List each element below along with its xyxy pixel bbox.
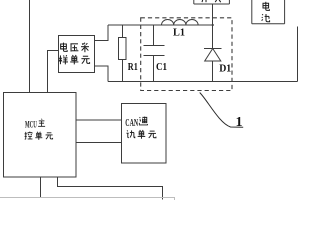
diode D1 cathode bar: [204, 48, 222, 50]
switch box (clipped at top): [194, 0, 230, 4]
wire: [122, 25, 124, 38]
wire: [122, 60, 124, 82]
leader line for reference numeral 1: [200, 93, 244, 128]
svg-text:R1: R1: [128, 61, 138, 73]
wire: [153, 56, 155, 82]
wire: [212, 4, 214, 49]
battery box (clipped at top): [252, 0, 285, 24]
diode D1 triangle: [205, 49, 221, 62]
wire: [95, 25, 109, 41]
wire: [29, 0, 31, 92]
inductor L1: [162, 20, 199, 26]
battery box text 电池 vertical: [262, 2, 270, 22]
svg-text:1: 1: [236, 115, 243, 130]
junction top rail / D1 vertical: [212, 24, 214, 26]
MCU main control unit text MCU主控单元: [25, 119, 53, 140]
faint cropped unit box top edge: [0, 198, 175, 200]
MCU bottom wire left: [41, 177, 163, 200]
wire MCU to CAN upper: [76, 120, 122, 143]
wire: [108, 24, 213, 26]
wire: [95, 66, 109, 82]
CAN communication unit text CAN通讯单元: [125, 117, 156, 139]
wire: [153, 25, 155, 46]
svg-text:D1: D1: [219, 63, 231, 75]
resistor R1: [119, 38, 127, 60]
svg-text:L1: L1: [173, 27, 185, 39]
MCU main control unit box: [4, 93, 77, 178]
wire: [48, 51, 59, 93]
svg-text:CAN: CAN: [125, 118, 138, 129]
dashed enclosure box 1: [141, 18, 232, 91]
wire: [212, 61, 214, 82]
svg-text:C1: C1: [156, 61, 167, 73]
wire: [108, 81, 298, 83]
wire MCU to CAN lower: [76, 142, 122, 144]
switch box text 开关 (clipped): [201, 0, 222, 2]
MCU bottom wire right: [58, 177, 163, 200]
voltage sampling unit box: [59, 36, 95, 73]
wire: [297, 27, 299, 82]
voltage sampling unit text 电压采样单元: [59, 43, 90, 65]
capacitor C1 top plate: [144, 45, 165, 47]
svg-text:MCU: MCU: [25, 120, 37, 130]
CAN communication unit box: [122, 104, 167, 164]
capacitor C1 bottom plate: [144, 55, 165, 57]
